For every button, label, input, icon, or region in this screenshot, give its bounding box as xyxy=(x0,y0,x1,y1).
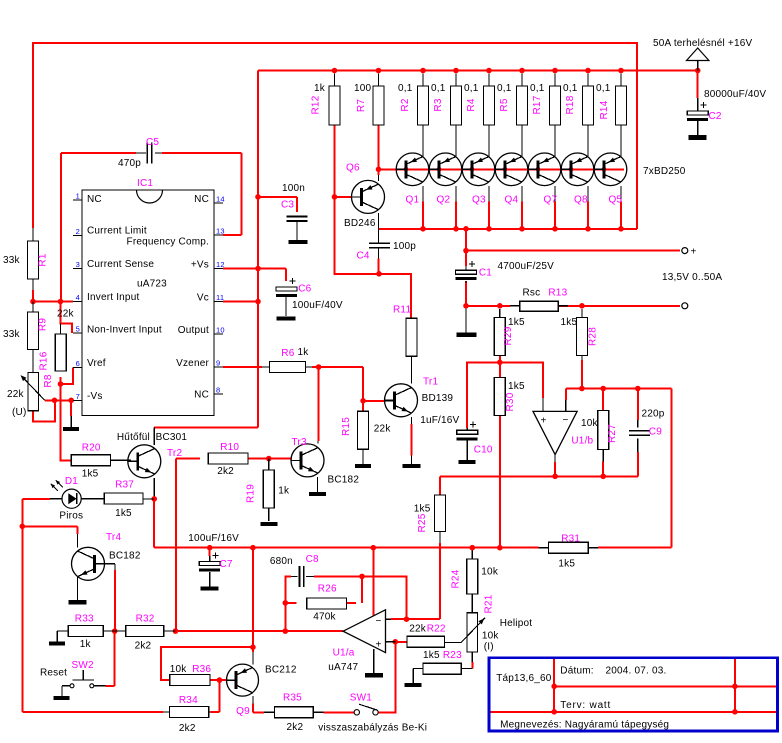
svg-text:uA747: uA747 xyxy=(328,662,358,673)
svg-text:BC301: BC301 xyxy=(156,432,188,443)
svg-text:10k: 10k xyxy=(581,418,599,429)
svg-text:R20: R20 xyxy=(82,443,101,454)
svg-text:R9: R9 xyxy=(38,318,49,331)
svg-text:2k2: 2k2 xyxy=(287,722,304,733)
svg-text:+: + xyxy=(541,415,547,426)
svg-text:Vref: Vref xyxy=(87,358,106,369)
svg-text:R27: R27 xyxy=(607,424,618,443)
svg-text:Q1: Q1 xyxy=(406,195,420,206)
svg-text:Hűtőfül: Hűtőfül xyxy=(117,432,150,443)
svg-text:D1: D1 xyxy=(65,476,78,487)
svg-text:C1: C1 xyxy=(479,268,492,279)
svg-text:680n: 680n xyxy=(270,556,293,567)
svg-text:4: 4 xyxy=(76,293,80,302)
svg-text:0,1: 0,1 xyxy=(464,83,479,94)
svg-text:R6: R6 xyxy=(281,348,294,359)
svg-text:1k5: 1k5 xyxy=(414,504,431,515)
svg-text:BD139: BD139 xyxy=(422,393,454,404)
svg-text:Invert Input: Invert Input xyxy=(87,292,139,303)
svg-text:C9: C9 xyxy=(649,427,662,438)
svg-text:R14: R14 xyxy=(599,100,610,119)
svg-text:R30: R30 xyxy=(505,392,516,411)
svg-text:100p: 100p xyxy=(393,241,416,252)
svg-text:uA723: uA723 xyxy=(137,279,167,290)
svg-text:R22: R22 xyxy=(427,624,446,635)
svg-text:22k: 22k xyxy=(374,424,392,435)
svg-text:33k: 33k xyxy=(3,329,21,340)
svg-text:SW1: SW1 xyxy=(350,693,373,704)
svg-text:Reset: Reset xyxy=(40,668,67,679)
svg-text:10k: 10k xyxy=(170,664,188,675)
svg-text:9: 9 xyxy=(216,358,220,367)
svg-text:0,1: 0,1 xyxy=(398,83,413,94)
svg-text:100uF/40V: 100uF/40V xyxy=(292,300,343,311)
svg-text:R12: R12 xyxy=(311,95,322,114)
svg-text:0,1: 0,1 xyxy=(530,83,545,94)
svg-text:R4: R4 xyxy=(466,98,477,111)
svg-text:Tr4: Tr4 xyxy=(106,532,121,543)
svg-text:50A terhelésnél +16V: 50A terhelésnél +16V xyxy=(653,38,752,49)
svg-text:4700uF/25V: 4700uF/25V xyxy=(498,261,555,272)
svg-text:10: 10 xyxy=(216,325,225,334)
svg-text:5: 5 xyxy=(76,325,80,334)
svg-text:+: + xyxy=(375,639,381,650)
svg-text:Tr1: Tr1 xyxy=(423,377,438,388)
svg-text:1k5: 1k5 xyxy=(82,468,99,479)
svg-text:Q3: Q3 xyxy=(472,195,486,206)
svg-text:R7: R7 xyxy=(356,99,367,112)
svg-text:BC182: BC182 xyxy=(328,474,360,485)
svg-text:BD246: BD246 xyxy=(344,218,376,229)
svg-text:R24: R24 xyxy=(451,569,462,588)
svg-text:22k: 22k xyxy=(7,389,25,400)
svg-text:7xBD250: 7xBD250 xyxy=(643,166,686,177)
svg-text:Q9: Q9 xyxy=(236,706,250,717)
svg-text:Q7: Q7 xyxy=(544,195,558,206)
svg-text:220p: 220p xyxy=(642,409,665,420)
svg-text:11: 11 xyxy=(216,293,224,302)
svg-text:Q6: Q6 xyxy=(346,163,360,174)
svg-text:Vc: Vc xyxy=(197,293,209,304)
svg-text:1k: 1k xyxy=(314,83,326,94)
svg-text:1: 1 xyxy=(76,192,80,201)
svg-text:NC: NC xyxy=(194,390,209,401)
svg-text:R16: R16 xyxy=(39,351,50,370)
svg-text:0,1: 0,1 xyxy=(563,83,578,94)
svg-text:R1: R1 xyxy=(38,253,49,266)
svg-text:+Vs: +Vs xyxy=(191,260,209,271)
svg-text:Current Limit: Current Limit xyxy=(87,226,147,237)
svg-text:1k5: 1k5 xyxy=(508,381,525,392)
svg-text:R26: R26 xyxy=(318,584,337,595)
svg-text:1k5: 1k5 xyxy=(115,508,132,519)
svg-text:Rsc: Rsc xyxy=(523,288,541,299)
svg-text:R32: R32 xyxy=(136,613,155,624)
svg-text:Megnevezés: Nagyáramú tápegysé: Megnevezés: Nagyáramú tápegység xyxy=(500,720,669,731)
svg-text:R35: R35 xyxy=(283,692,302,703)
svg-text:R18: R18 xyxy=(565,95,576,114)
svg-text:(U): (U) xyxy=(12,407,26,418)
svg-text:1k: 1k xyxy=(298,347,310,358)
svg-text:NC: NC xyxy=(194,194,209,205)
svg-text:R23: R23 xyxy=(443,650,462,661)
svg-text:R33: R33 xyxy=(75,613,94,624)
svg-text:R11: R11 xyxy=(393,304,411,315)
svg-text:R17: R17 xyxy=(532,95,543,114)
svg-text:13: 13 xyxy=(216,227,225,236)
svg-text:80000uF/40V: 80000uF/40V xyxy=(704,89,766,100)
svg-text:1k: 1k xyxy=(80,639,92,650)
svg-text:0,1: 0,1 xyxy=(431,83,446,94)
svg-text:33k: 33k xyxy=(3,255,21,266)
svg-text:R34: R34 xyxy=(179,695,198,706)
svg-text:0,1: 0,1 xyxy=(497,83,512,94)
svg-text:R2: R2 xyxy=(400,98,411,111)
svg-text:C5: C5 xyxy=(146,137,159,148)
svg-text:1k5: 1k5 xyxy=(561,317,578,328)
svg-text:1uF/16V: 1uF/16V xyxy=(420,415,459,426)
svg-text:visszaszabályzás Be-Ki: visszaszabályzás Be-Ki xyxy=(318,723,427,734)
svg-text:BC182: BC182 xyxy=(109,550,141,561)
svg-text:100uF/16V: 100uF/16V xyxy=(188,533,239,544)
svg-text:C10: C10 xyxy=(474,445,493,456)
svg-text:13,5V 0..50A: 13,5V 0..50A xyxy=(662,272,722,283)
svg-text:8: 8 xyxy=(216,386,220,395)
svg-text:R15: R15 xyxy=(341,417,352,436)
svg-text:470k: 470k xyxy=(313,612,336,623)
svg-text:100: 100 xyxy=(354,83,372,94)
svg-text:R36: R36 xyxy=(192,664,211,675)
svg-text:−: − xyxy=(563,415,569,426)
svg-text:NC: NC xyxy=(87,194,102,205)
svg-text:22k: 22k xyxy=(409,624,427,635)
svg-text:R5: R5 xyxy=(499,98,510,111)
svg-text:14: 14 xyxy=(216,195,225,204)
svg-text:Q5: Q5 xyxy=(609,195,623,206)
svg-text:C4: C4 xyxy=(357,251,370,262)
svg-text:Terv: watt: Terv: watt xyxy=(560,700,611,711)
svg-text:R21: R21 xyxy=(484,594,495,613)
svg-text:C8: C8 xyxy=(306,554,319,565)
svg-text:IC1: IC1 xyxy=(137,178,153,189)
svg-text:C7: C7 xyxy=(220,559,233,570)
svg-text:Tr2: Tr2 xyxy=(167,448,182,459)
svg-text:R25: R25 xyxy=(417,513,428,532)
svg-text:2k2: 2k2 xyxy=(217,466,234,477)
svg-text:U1/b: U1/b xyxy=(571,436,593,447)
svg-text:SW2: SW2 xyxy=(72,660,95,671)
svg-text:2: 2 xyxy=(76,227,80,236)
svg-text:+: + xyxy=(691,247,697,258)
svg-text:R29: R29 xyxy=(503,326,514,345)
svg-text:Q4: Q4 xyxy=(505,195,519,206)
svg-text:Frequency Comp.: Frequency Comp. xyxy=(127,237,209,248)
svg-text:R13: R13 xyxy=(548,288,567,299)
svg-text:Táp13,6_60: Táp13,6_60 xyxy=(496,673,552,684)
svg-text:1k5: 1k5 xyxy=(423,650,440,661)
svg-text:R37: R37 xyxy=(115,480,134,491)
svg-text:-Vs: -Vs xyxy=(87,391,103,402)
svg-text:Q2: Q2 xyxy=(437,195,451,206)
svg-text:C2: C2 xyxy=(709,111,722,122)
svg-text:−: − xyxy=(375,616,381,627)
svg-text:R31: R31 xyxy=(561,534,580,545)
svg-text:7: 7 xyxy=(76,392,80,401)
svg-text:BC212: BC212 xyxy=(265,665,297,676)
svg-text:22k: 22k xyxy=(57,309,75,320)
svg-text:10k: 10k xyxy=(482,630,500,641)
svg-text:U1/a: U1/a xyxy=(333,648,355,659)
svg-text:10k: 10k xyxy=(481,567,499,578)
svg-text:(I): (I) xyxy=(484,642,494,653)
svg-text:Dátum:: Dátum: xyxy=(560,666,593,677)
svg-text:12: 12 xyxy=(216,260,225,269)
svg-text:2k2: 2k2 xyxy=(135,641,152,652)
svg-text:Q8: Q8 xyxy=(574,195,588,206)
svg-text:R10: R10 xyxy=(220,442,239,453)
svg-text:Tr3: Tr3 xyxy=(292,437,307,448)
svg-text:2004. 07. 03.: 2004. 07. 03. xyxy=(606,666,667,677)
svg-text:R28: R28 xyxy=(588,327,599,346)
svg-text:6: 6 xyxy=(76,359,80,368)
svg-text:R8: R8 xyxy=(43,374,54,387)
svg-text:Non-Invert Input: Non-Invert Input xyxy=(87,325,162,336)
svg-text:R3: R3 xyxy=(433,98,444,111)
svg-text:Piros: Piros xyxy=(59,511,83,522)
svg-text:3: 3 xyxy=(76,260,80,269)
svg-text:1k5: 1k5 xyxy=(508,317,525,328)
svg-text:100n: 100n xyxy=(282,183,305,194)
svg-text:1k5: 1k5 xyxy=(558,559,575,570)
svg-text:2k2: 2k2 xyxy=(179,723,196,734)
svg-text:1k: 1k xyxy=(278,486,290,497)
svg-text:C3: C3 xyxy=(281,200,294,211)
svg-text:Output: Output xyxy=(178,325,209,336)
svg-text:C6: C6 xyxy=(298,284,311,295)
svg-text:R19: R19 xyxy=(246,484,257,503)
svg-text:Vzener: Vzener xyxy=(176,358,209,369)
svg-text:470p: 470p xyxy=(118,158,141,169)
svg-text:Current Sense: Current Sense xyxy=(87,259,154,270)
svg-text:Helipot: Helipot xyxy=(500,618,533,629)
svg-text:0,1: 0,1 xyxy=(596,83,611,94)
